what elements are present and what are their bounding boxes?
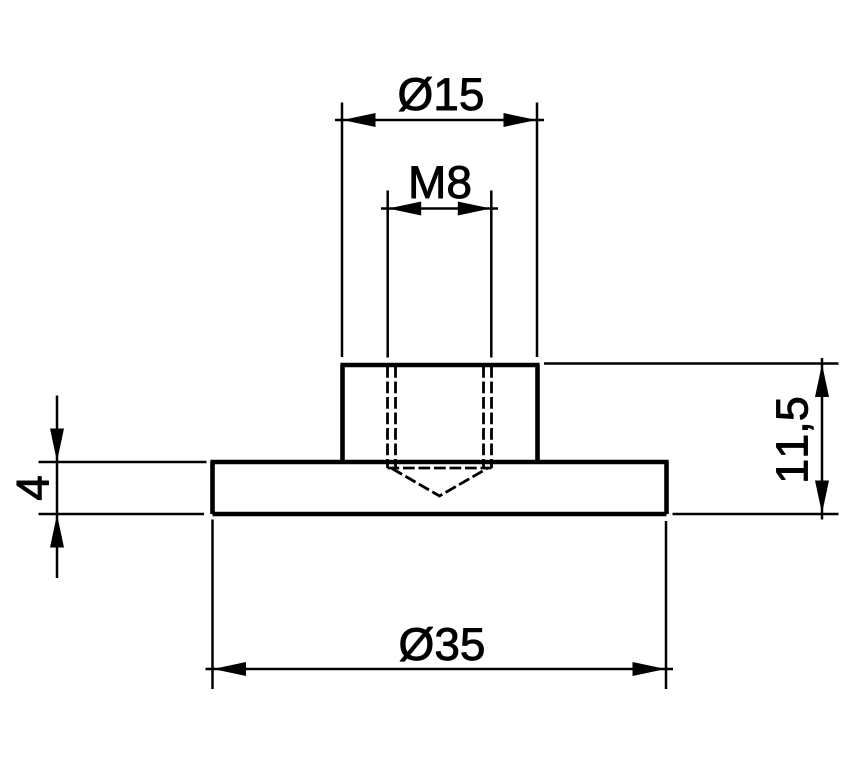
hidden hole bottom dashed line bbox=[388, 467, 492, 470]
dimension 4 extension lines bbox=[39, 462, 207, 514]
dimension Ø15 line bbox=[335, 119, 544, 122]
dimension 11,5 arrowheads bbox=[815, 364, 829, 514]
hidden drill hole dashed lines bbox=[396, 366, 484, 468]
dimension 11,5 extension lines bbox=[544, 364, 839, 515]
dimension Ø35 arrowheads bbox=[213, 662, 666, 676]
dimension Ø15 arrowheads bbox=[343, 113, 537, 127]
dimension M8 arrowheads bbox=[388, 202, 491, 216]
dimension 4 text (rotated) bbox=[17, 477, 49, 500]
hidden thread major diameter dashed lines bbox=[388, 366, 492, 468]
dimension 4 line bbox=[56, 396, 59, 579]
dimension Ø15 extension lines bbox=[342, 103, 537, 358]
dimension M8 line bbox=[381, 207, 498, 210]
dimension Ø35 extension lines bbox=[213, 520, 667, 690]
dimension M8 text bbox=[412, 166, 470, 199]
base disc outline (Ø35 x 4 flange) bbox=[210, 462, 668, 514]
dimension Ø15 text bbox=[399, 77, 482, 111]
drill point cone dashed V bbox=[392, 469, 487, 497]
dimension 4 arrowheads (outside) bbox=[50, 429, 64, 548]
dimension Ø35 line bbox=[206, 668, 674, 671]
boss outline (Ø15 x 7.5 cylinder) bbox=[340, 365, 539, 462]
dimension 11,5 text (rotated) bbox=[777, 398, 814, 480]
dimension Ø35 text bbox=[400, 627, 483, 661]
dimension 11,5 line bbox=[821, 358, 824, 520]
dimension M8 extension lines bbox=[388, 191, 492, 358]
